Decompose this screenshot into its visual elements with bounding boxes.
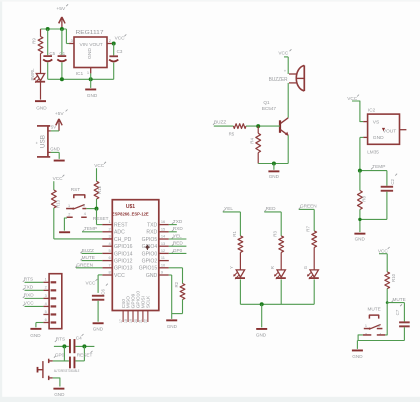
svg-text:20: 20 (134, 319, 138, 323)
svg-text:GND: GND (50, 147, 60, 152)
svg-text:PWRL: PWRL (30, 68, 35, 81)
svg-text:GPIO13: GPIO13 (114, 266, 133, 272)
svg-text:BUZZ: BUZZ (82, 248, 94, 253)
svg-text:RESET: RESET (77, 352, 93, 357)
svg-text:RED: RED (173, 241, 184, 246)
svg-text:GND: GND (146, 273, 158, 279)
svg-text:18: 18 (124, 319, 128, 323)
svg-text:3: 3 (45, 294, 47, 298)
svg-text:TEMP: TEMP (372, 164, 385, 169)
svg-text:C5: C5 (49, 51, 55, 56)
svg-text:R8: R8 (362, 196, 367, 202)
svg-text:C3: C3 (117, 49, 123, 54)
svg-text:VCC: VCC (278, 51, 289, 56)
svg-text:TXD: TXD (147, 223, 158, 229)
svg-text:RTS: RTS (24, 277, 33, 282)
svg-text:VCC: VCC (86, 281, 97, 286)
svg-text:C7: C7 (395, 309, 400, 315)
svg-text:5: 5 (45, 310, 47, 314)
svg-text:C2: C2 (390, 178, 395, 184)
svg-text:C1: C1 (59, 51, 65, 56)
svg-text:13: 13 (161, 241, 165, 246)
svg-text:MUTE: MUTE (82, 255, 95, 260)
svg-text:GND: GND (167, 324, 178, 329)
svg-text:RTS: RTS (56, 337, 65, 342)
svg-text:RXD: RXD (173, 226, 184, 231)
svg-text:19: 19 (129, 319, 133, 323)
svg-text:R3: R3 (273, 231, 278, 237)
svg-text:RESET: RESET (93, 216, 109, 221)
svg-text:YEL: YEL (173, 233, 182, 238)
svg-text:GPIO15: GPIO15 (139, 266, 158, 272)
svg-text:GND: GND (93, 327, 104, 332)
svg-text:RED: RED (266, 206, 277, 211)
svg-text:VOUT: VOUT (383, 128, 397, 134)
svg-text:GND: GND (54, 392, 65, 397)
svg-text:1: 1 (68, 204, 70, 208)
svg-text:R5: R5 (229, 131, 235, 136)
svg-text:GND: GND (355, 236, 366, 241)
svg-text:Y: Y (229, 266, 234, 269)
svg-text:RXD: RXD (146, 230, 157, 236)
svg-text:U$1: U$1 (126, 204, 135, 210)
svg-text:R2: R2 (174, 281, 179, 287)
svg-text:VS: VS (373, 120, 380, 126)
svg-text:4: 4 (84, 212, 86, 216)
svg-text:TXD: TXD (173, 219, 183, 224)
svg-text:2: 2 (45, 286, 47, 290)
svg-text:TEMP: TEMP (84, 226, 97, 231)
svg-text:GREEN: GREEN (300, 204, 317, 209)
svg-text:R10: R10 (391, 273, 396, 282)
svg-text:GREEN: GREEN (76, 262, 93, 267)
svg-text:VCC: VCC (94, 163, 105, 168)
svg-text:GP0: GP0 (173, 248, 183, 253)
svg-text:VCC: VCC (115, 36, 126, 41)
svg-text:GND: GND (256, 333, 267, 338)
svg-text:GP0: GP0 (55, 352, 65, 357)
svg-text:SCLK: SCLK (146, 295, 152, 308)
svg-text:5V: 5V (51, 125, 56, 130)
svg-text:R9: R9 (31, 38, 36, 44)
svg-text:RST: RST (71, 187, 81, 192)
svg-text:+: + (35, 141, 40, 144)
svg-text:BUZZER: BUZZER (269, 77, 288, 83)
svg-text:GPIO14: GPIO14 (114, 251, 133, 257)
svg-text:16: 16 (161, 219, 165, 224)
svg-text:6: 6 (45, 318, 47, 322)
svg-text:+5V: +5V (55, 111, 65, 117)
svg-text:VCC: VCC (24, 301, 35, 306)
svg-text:G: G (303, 266, 308, 269)
svg-text:VCC: VCC (347, 96, 358, 101)
svg-text:REST: REST (114, 223, 128, 229)
svg-text:+5V: +5V (56, 6, 66, 12)
svg-text:USB: USB (39, 135, 46, 148)
svg-text:3: 3 (378, 324, 380, 328)
svg-text:GND: GND (352, 354, 363, 359)
svg-text:Q1: Q1 (263, 100, 270, 105)
svg-text:TXD: TXD (24, 285, 34, 290)
svg-text:BUZZ: BUZZ (214, 120, 226, 125)
svg-text:YEL: YEL (224, 206, 233, 211)
svg-text:GND: GND (30, 333, 41, 338)
svg-text:15: 15 (161, 226, 165, 231)
svg-text:GND: GND (373, 135, 384, 141)
svg-text:C6: C6 (101, 289, 106, 295)
svg-text:17: 17 (119, 319, 123, 323)
svg-text:11: 11 (161, 255, 165, 260)
svg-text:R12: R12 (97, 185, 102, 194)
svg-text:GND: GND (87, 93, 98, 98)
svg-text:RXD: RXD (24, 293, 35, 298)
svg-text:2: 2 (68, 213, 70, 217)
svg-text:9: 9 (161, 270, 163, 275)
svg-text:VOUT: VOUT (89, 42, 103, 48)
svg-text:ESP8266_ESP-12E: ESP8266_ESP-12E (112, 211, 149, 216)
svg-text:R13: R13 (56, 199, 61, 208)
svg-text:GPIO12: GPIO12 (114, 259, 133, 265)
svg-text:GPIO2: GPIO2 (142, 259, 158, 265)
svg-text:CH_PD: CH_PD (114, 237, 132, 243)
svg-text:R: R (270, 266, 275, 269)
svg-text:MUTE: MUTE (368, 307, 381, 312)
svg-text:GND: GND (36, 105, 47, 110)
svg-text:IC1: IC1 (76, 71, 84, 77)
svg-text:1: 1 (365, 324, 367, 328)
svg-text:BC547: BC547 (262, 106, 277, 111)
svg-text:VCC: VCC (53, 176, 64, 181)
svg-text:GPIO5: GPIO5 (142, 237, 158, 243)
svg-text:VCC: VCC (114, 273, 125, 279)
svg-text:ADC: ADC (114, 230, 125, 236)
svg-text:VIN: VIN (80, 42, 89, 48)
svg-text:R7: R7 (306, 226, 311, 232)
svg-text:GND: GND (87, 48, 93, 59)
svg-text:LM35: LM35 (367, 149, 379, 154)
svg-text:GPIO0: GPIO0 (142, 251, 158, 257)
svg-text:12: 12 (161, 248, 165, 253)
svg-text:21: 21 (139, 319, 143, 323)
svg-text:GND: GND (269, 174, 280, 179)
svg-text:C4: C4 (76, 335, 82, 340)
svg-text:IC2: IC2 (368, 108, 376, 113)
svg-text:R1: R1 (232, 231, 237, 237)
svg-text:22: 22 (144, 319, 148, 323)
svg-text:3: 3 (83, 204, 85, 208)
svg-text:R4: R4 (250, 138, 255, 144)
svg-text:4: 4 (45, 302, 47, 306)
svg-text:1: 1 (45, 278, 47, 282)
svg-text:GPIO16: GPIO16 (114, 244, 133, 250)
svg-text:MUTE: MUTE (393, 297, 406, 302)
svg-text:REG1117: REG1117 (76, 30, 104, 36)
svg-text:VCC: VCC (378, 248, 389, 253)
svg-text:AUTORESETDISABLE: AUTORESETDISABLE (54, 369, 80, 373)
